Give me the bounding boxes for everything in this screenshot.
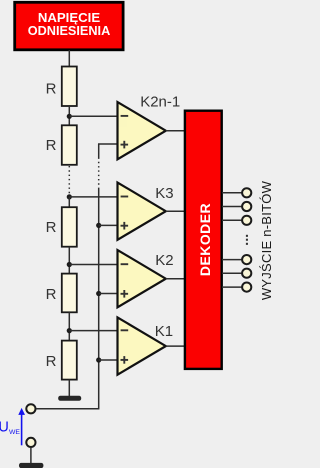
resistor R (3rd from top) <box>46 207 77 247</box>
wire R3 to node C <box>68 247 70 274</box>
resistor R (5th from top) <box>46 341 77 380</box>
svg-text:K2n-1: K2n-1 <box>140 93 180 110</box>
wire bus to K2 non-inverting input <box>99 293 118 295</box>
wire bus to K1 non-inverting input <box>99 359 118 361</box>
node C (junction dot, tap 3) <box>67 262 72 267</box>
output terminal bit 1 <box>242 188 251 197</box>
dotted ladder continuation wire <box>68 166 70 197</box>
wire R5 to ground <box>68 380 70 396</box>
comparator K2 <box>118 250 174 307</box>
ground (ladder bottom) <box>58 396 81 401</box>
wire node D to K1 inverting input <box>69 330 117 332</box>
output terminal bit n-1 <box>242 269 251 278</box>
label Uwe <box>0 420 20 436</box>
svg-text:K1: K1 <box>155 323 173 340</box>
output wire bit n <box>222 286 242 288</box>
non-inverting input bus (vertical wire) <box>98 144 100 410</box>
wire node B to R3 <box>68 197 70 207</box>
wire R1 to node A <box>68 106 70 125</box>
reference voltage source box NAPIECIE ODNIESIENIA <box>15 2 123 50</box>
wire R4 to node D <box>68 312 70 340</box>
output wire bit 2 <box>222 206 242 208</box>
decoder block U1 DEKODER <box>185 111 222 369</box>
wire K3 output to decoder <box>166 210 187 212</box>
output wire bit n-2 <box>222 259 242 261</box>
ground (input) <box>19 463 43 468</box>
wire node B to K3 inverting input <box>69 196 117 198</box>
wire bus to K2n-1 non-inverting input <box>98 143 118 145</box>
lower input terminal <box>26 438 35 447</box>
input terminal Uwe <box>26 404 35 413</box>
svg-text:NAPIĘCIE: NAPIĘCIE <box>38 10 100 25</box>
resistor R (2nd from top) <box>46 125 77 165</box>
output wire bit 1 <box>222 192 242 194</box>
svg-text:R: R <box>46 286 57 303</box>
svg-text:R: R <box>46 353 57 370</box>
wire K2n-1 output to decoder <box>166 130 187 132</box>
wire lower terminal to ground <box>30 448 32 464</box>
node B (junction dot, tap 2) <box>67 194 72 199</box>
svg-text:WYJŚCIE n-BITÓW: WYJŚCIE n-BITÓW <box>259 180 271 300</box>
svg-text:K2: K2 <box>155 252 173 269</box>
svg-text:ODNIESIENIA: ODNIESIENIA <box>28 24 110 38</box>
svg-text:R: R <box>46 137 57 154</box>
output wire bit n-1 <box>222 272 242 274</box>
output terminal bit n <box>242 283 251 292</box>
comparator K2n-1 <box>118 93 181 159</box>
svg-text:WE: WE <box>9 429 20 436</box>
node D (junction dot, tap 4) <box>67 328 72 333</box>
ellipsis dots (more outputs) <box>246 235 248 245</box>
wire bus to K3 non-inverting input <box>99 224 118 226</box>
junction dot bus/K2 + input <box>96 291 101 296</box>
svg-text:K3: K3 <box>155 185 173 202</box>
wire from reference box to resistor R (top) <box>68 50 70 67</box>
node A (junction dot, tap 1) <box>67 114 72 119</box>
output terminal bit n-2 <box>242 255 251 264</box>
output terminal bit 2 <box>242 202 251 211</box>
junction dot bus/K3 + input <box>96 223 101 228</box>
wire input terminal to bus <box>36 408 98 410</box>
output terminal bit 3 <box>242 216 251 225</box>
svg-text:DEKODER: DEKODER <box>197 203 213 276</box>
wire K2 output to decoder <box>166 278 187 280</box>
svg-text:R: R <box>46 80 57 97</box>
wire K1 output to decoder <box>166 345 187 347</box>
comparator K1 <box>118 317 174 374</box>
comparator K3 <box>118 183 174 240</box>
resistor R (4th from top) <box>46 274 77 313</box>
svg-text:U: U <box>0 420 9 436</box>
wire node A to K2n-1 inverting input <box>69 115 117 117</box>
resistor R (1st from top) <box>46 67 77 107</box>
junction dot bus/K1 + input <box>96 357 101 362</box>
output wire bit 3 <box>222 219 242 221</box>
svg-text:R: R <box>46 219 57 236</box>
wire node C to K2 inverting input <box>69 264 117 266</box>
input voltage arrow <box>18 408 25 445</box>
